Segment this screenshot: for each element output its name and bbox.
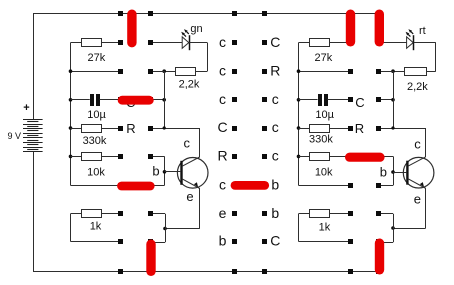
svg-text:c: c [272,119,279,135]
resistor R9 10k right [310,153,330,161]
resistor R7 2,2k right [405,68,427,76]
wire R6 to socket [330,42,351,44]
svg-text:R: R [355,121,364,136]
node junction row4 [163,126,166,129]
svg-text:330k: 330k [83,135,107,147]
emitter horizontal wire Q2 [393,228,426,230]
svg-text:330k: 330k [309,134,333,146]
wire R4 to socket [102,156,122,158]
wire right bus to base row [299,185,351,187]
svg-text:b: b [219,233,227,249]
wire socket row4 to collector wire right [379,128,426,130]
left bus vertical wire [70,43,72,186]
svg-text:c: c [219,91,226,107]
svg-text:C: C [355,95,364,110]
wire base column down to socket row6 right [379,185,394,187]
wire battery + to top rail [33,14,35,120]
svg-text:C: C [270,233,280,249]
wire socket row4 to collector wire [150,128,200,130]
svg-text:c: c [414,137,421,152]
wire to resistor R6 [299,42,310,44]
vertical wire right 2,2k to collector feed [393,71,395,128]
red jumper vertical bottom-left [146,244,155,271]
base wire Q2 [393,172,406,174]
capacitor C2 10u right [318,94,322,106]
svg-text:R: R [217,148,227,164]
wire right bus to resistor R9 [299,156,310,158]
red jumper vertical top-right 1 [346,14,355,42]
node emitter junction [163,227,167,231]
wire socket row5 to base feed [150,156,165,158]
svg-text:10k: 10k [315,166,333,178]
wire socket row2 to junction [150,71,164,73]
emitter horizontal wire Q1 [165,228,200,230]
wire R9 to sockets under red bar [330,156,393,158]
wire R5 to socket [102,213,122,215]
svg-text:R: R [270,62,280,78]
wire to resistor R2 [196,71,208,73]
collector vertical wire Q2 [425,128,427,157]
resistor R8 330k right [310,125,330,133]
resistor R3 330k [82,125,102,133]
wire right bus to capacitor C2 [299,99,318,101]
base wire Q1 [165,171,181,173]
node left bus 10k row [69,155,73,159]
svg-text:c: c [219,177,226,193]
red jumper vertical top-left [127,14,136,43]
wire to resistor R1 [71,42,82,44]
socket dots grid [118,11,123,16]
node right bus 330k row [297,126,301,130]
node right bus 10k row [297,155,301,159]
wire 1k loop down [70,214,72,242]
wire emitter column down [165,214,167,243]
transistor Q1 [177,158,208,189]
node junction cap row right [391,98,395,102]
vertical wire to base Q1 [164,156,166,185]
svg-text:C: C [270,34,280,50]
svg-text:R: R [126,121,135,136]
svg-text:C: C [217,119,227,135]
svg-text:10k: 10k [87,166,105,178]
wire R3 to socket [102,128,122,130]
node junction right 2,2k row [391,69,395,73]
resistor R2 2,2k [176,68,196,76]
wire left bus to socket row2 [71,71,122,73]
resistor R4 10k [82,153,102,161]
resistor R5 1k [82,210,102,218]
svg-text:e: e [219,205,227,221]
wire left bus to capacitor C1 [71,99,90,101]
svg-text:27k: 27k [88,52,106,64]
node emitter junction right [391,226,395,230]
wire R8 to socket [330,128,351,130]
wire socket row7 to emitter column right [379,213,394,215]
wire left bus to base row [71,185,122,187]
wire socket to LED D2 [379,42,407,44]
node left bus 330k row [69,126,73,130]
wire base column down to socket row6 [150,185,165,187]
wire to resistor R7 [426,71,436,73]
wire socket to junction cap row right [379,99,394,101]
red jumper middle row6 [235,181,265,190]
node right bus capacitor row [297,98,301,102]
svg-text:gn: gn [190,23,202,35]
right bus vertical wire [298,43,300,186]
battery B1 9V [23,119,43,121]
wire R10 to socket [330,213,351,215]
wire socket row2 to junction right [379,71,394,73]
LED D1 gn (green) [182,37,189,48]
svg-text:+: + [23,102,29,114]
wire R1 to socket [102,42,122,44]
svg-text:10µ: 10µ [315,109,334,121]
wire down to R7 row [435,43,437,72]
svg-text:2,2k: 2,2k [179,79,200,91]
wire LED D1 cathode [189,42,207,44]
node left bus capacitor row [69,98,73,102]
wire emitter column down right [393,214,395,243]
wire right bus to resistor R8 [299,128,310,130]
collector vertical wire Q1 [199,128,201,157]
node right bus row2 [297,69,301,73]
svg-text:e: e [186,189,193,204]
svg-text:c: c [219,62,226,78]
wire 1k loop to socket row8 [71,241,122,243]
svg-text:2,2k: 2,2k [407,81,428,93]
top supply rail [33,13,379,15]
wire battery - to bottom rail [33,152,35,272]
svg-text:c: c [219,34,226,50]
capacitor C1 10u [90,94,94,106]
wire R2 to junction [164,71,176,73]
node junction 2,2k row [162,69,166,73]
wire C1 to socket [100,99,121,101]
wire down to R2 row [207,43,209,72]
wire socket to junction cap row [150,99,164,101]
wire 1k loop to socket row8 right [299,241,351,243]
LED D2 rt (red) [407,37,414,48]
wire to resistor R5 [71,213,82,215]
svg-text:9 V: 9 V [8,131,22,141]
resistor R10 1k right [310,210,330,218]
red jumper vertical bottom-right [375,243,384,270]
svg-text:b: b [271,177,279,193]
wire to socket row8 right [379,242,394,244]
wire left bus to resistor R3 [71,128,82,130]
svg-text:c: c [272,148,279,164]
vertical wire 2,2k to collector feed [164,71,166,128]
svg-text:10µ: 10µ [87,109,106,121]
red jumper left base row [122,182,151,191]
svg-text:1k: 1k [319,221,331,233]
node junction row4 right [391,126,394,129]
resistor R1 27k [82,39,102,47]
svg-text:c: c [184,136,191,151]
svg-text:1k: 1k [90,220,102,232]
wire to socket row8 [150,242,165,244]
svg-text:rt: rt [419,25,426,37]
node base junction Q2 [391,170,395,174]
wire socket to LED D1 [150,42,182,44]
emitter vertical wire Q1 [199,188,201,228]
red jumper left capacitor row [122,96,149,105]
wire to resistor R10 [299,213,310,215]
svg-text:c: c [272,91,279,107]
resistor R6 27k [310,39,330,47]
bottom supply rail [33,271,379,273]
svg-text:b: b [152,164,159,179]
node base junction Q1 [163,170,167,174]
transistor Q2 [403,157,434,188]
svg-text:b: b [380,165,387,180]
svg-text:27k: 27k [315,52,333,64]
wire LED D2 cathode [414,42,436,44]
wire C2 to socket [327,99,350,101]
red jumper vertical top-right 2 [375,14,384,42]
wire left bus to resistor R4 [71,156,82,158]
red jumper right 10k row [350,153,380,162]
emitter vertical wire Q2 [425,188,427,228]
svg-text:b: b [271,205,279,221]
node left bus row2 [69,69,73,73]
wire 1k loop down right [298,214,300,242]
wire R7 to junction [393,71,404,73]
wire socket row7 to emitter column [150,213,165,215]
vertical wire to base Q2 [393,156,395,185]
node junction cap row [162,98,166,102]
wire right bus to socket row2 [299,71,351,73]
svg-text:e: e [414,192,421,207]
